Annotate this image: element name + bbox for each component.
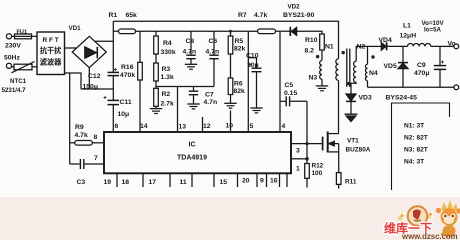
watermark seal logo <box>408 206 428 226</box>
svg-text:C9: C9 <box>417 62 426 69</box>
svg-text:TDA4919: TDA4919 <box>177 155 207 162</box>
watermark pink band <box>0 197 460 240</box>
fuse FU1 <box>15 34 32 39</box>
wire pin12 stub <box>202 117 204 132</box>
svg-text:5: 5 <box>250 123 254 130</box>
IC U1 TDA4919 box <box>104 132 291 173</box>
svg-text:R3: R3 <box>162 66 171 73</box>
svg-text:C10: C10 <box>246 53 259 60</box>
wire pin10 stub <box>230 111 232 132</box>
svg-text:C11: C11 <box>120 99 132 106</box>
ground under R6 <box>224 103 236 108</box>
watermark flower right <box>427 211 435 219</box>
svg-text:C8: C8 <box>186 38 195 45</box>
svg-text:NTC1: NTC1 <box>10 78 27 85</box>
thermistor NTC1 <box>12 62 35 73</box>
wire <box>297 31 322 34</box>
junction dots <box>229 30 375 161</box>
svg-text:14: 14 <box>140 123 148 130</box>
svg-text:R4: R4 <box>163 40 172 47</box>
wire <box>65 73 82 89</box>
svg-text:VD2: VD2 <box>288 4 301 11</box>
svg-text:R6: R6 <box>234 81 243 88</box>
svg-text:BUZ80A: BUZ80A <box>346 147 371 154</box>
svg-text:4.7n: 4.7n <box>183 49 197 56</box>
wire pin13 <box>177 87 179 132</box>
wire pin1 <box>291 158 307 160</box>
resistor R12 <box>305 159 310 188</box>
svg-text:10: 10 <box>226 123 234 130</box>
polarity dot N1 <box>342 51 345 54</box>
svg-text:20: 20 <box>242 178 250 185</box>
svg-text:2.7k: 2.7k <box>161 101 174 108</box>
svg-text:VT1: VT1 <box>347 138 359 145</box>
svg-text:www.dzsc.com: www.dzsc.com <box>401 232 458 240</box>
svg-text:C5: C5 <box>285 82 294 89</box>
wire DC bus vertical <box>112 21 114 132</box>
svg-text:R7: R7 <box>238 12 247 19</box>
wire source down <box>338 152 340 173</box>
capacitor C7 <box>189 87 198 104</box>
table box winding data <box>392 103 450 190</box>
resistor R9 <box>70 73 104 164</box>
svg-text:R9: R9 <box>75 124 84 131</box>
svg-text:R1: R1 <box>109 12 118 19</box>
winding N2 <box>347 46 368 83</box>
svg-text:16: 16 <box>270 178 278 185</box>
capacitor C3 <box>70 159 104 169</box>
capacitor C12 <box>108 68 120 76</box>
svg-text:82k: 82k <box>234 46 246 53</box>
wire <box>65 47 77 49</box>
resistor R7 <box>258 29 276 34</box>
svg-text:N1: 3T: N1: 3T <box>404 123 424 130</box>
polarity dot N3 <box>316 55 319 58</box>
svg-text:150μ: 150μ <box>83 84 99 91</box>
svg-text:82k: 82k <box>234 88 246 95</box>
svg-text:50Hz: 50Hz <box>4 55 20 62</box>
terminal AC input bottom <box>6 63 11 68</box>
wire C5 to sense node <box>306 101 308 159</box>
wire N1 to drain <box>338 80 340 133</box>
pin ticks bottom <box>117 174 287 188</box>
wire secondary bottom <box>368 86 454 88</box>
diode VD2 <box>290 27 296 36</box>
svg-text:N1: N1 <box>325 44 334 51</box>
resistor R11 <box>336 173 341 189</box>
svg-text:R5: R5 <box>235 38 244 45</box>
svg-text:7: 7 <box>94 155 98 162</box>
svg-text:1: 1 <box>296 166 300 173</box>
svg-text:RFT: RFT <box>43 37 61 44</box>
wire divider node <box>156 86 214 88</box>
capacitor C10 <box>248 58 261 108</box>
wire <box>276 30 291 32</box>
svg-text:L1: L1 <box>403 23 411 30</box>
winding N1 <box>336 59 339 81</box>
svg-text:VD4: VD4 <box>379 37 392 44</box>
svg-text:470μ: 470μ <box>414 70 430 77</box>
ground under C7 <box>187 104 199 109</box>
svg-text:N3: 82T: N3: 82T <box>404 147 428 154</box>
svg-text:5231/4.7: 5231/4.7 <box>2 87 27 94</box>
svg-text:R10: R10 <box>305 37 318 44</box>
svg-text:R16: R16 <box>121 64 134 71</box>
terminal Vo- <box>454 85 459 90</box>
ground under C8 <box>185 64 197 69</box>
transistor VT1 BUZ80A mosfet <box>323 132 339 153</box>
svg-text:0.15: 0.15 <box>284 90 297 97</box>
svg-text:8: 8 <box>94 134 98 141</box>
watermark flower left <box>398 212 407 221</box>
terminal Vo+ <box>454 44 459 49</box>
inductor L1 <box>408 44 431 47</box>
polarity dot N4 <box>371 55 374 58</box>
svg-text:R2: R2 <box>162 91 171 98</box>
svg-text:VD3: VD3 <box>359 95 372 102</box>
svg-text:VD5: VD5 <box>384 63 397 70</box>
diode VD4 <box>381 42 386 50</box>
resistor R10 <box>320 34 325 50</box>
resistor R3 <box>154 54 159 81</box>
wire <box>321 50 323 61</box>
svg-text:4.7n: 4.7n <box>206 49 220 56</box>
svg-text:15: 15 <box>220 179 228 186</box>
wire rail B mid <box>136 30 258 32</box>
watermark mascot monkey <box>436 200 460 237</box>
polarity dot N2 <box>347 82 350 85</box>
wire top rail A <box>113 21 338 59</box>
ground under R2 <box>150 109 162 114</box>
diode VD3 <box>346 83 356 114</box>
capacitor C9 <box>434 46 446 87</box>
svg-text:VD1: VD1 <box>69 25 82 32</box>
wire <box>431 45 454 47</box>
wire rail B left <box>113 30 118 32</box>
svg-text:11: 11 <box>180 179 187 186</box>
svg-text:18: 18 <box>122 179 130 186</box>
svg-text:FU1: FU1 <box>17 30 28 36</box>
wire <box>12 66 14 68</box>
svg-text:N2: N2 <box>357 44 366 51</box>
svg-text:100: 100 <box>312 170 323 177</box>
svg-text:滤波器: 滤波器 <box>40 57 62 66</box>
svg-text:C3: C3 <box>77 179 86 186</box>
chassis ground under VD3 <box>345 114 358 121</box>
svg-text:抗干扰: 抗干扰 <box>40 46 62 55</box>
wire <box>12 35 15 37</box>
svg-text:230V: 230V <box>5 43 21 50</box>
wire pin4 line <box>279 31 281 132</box>
svg-text:R12: R12 <box>312 163 324 170</box>
wire <box>387 45 407 47</box>
winding N4 <box>365 46 367 87</box>
svg-text:N3: N3 <box>309 75 318 82</box>
wire <box>32 35 38 37</box>
resistor R4 <box>154 31 159 54</box>
svg-text:13: 13 <box>179 124 187 131</box>
resistor R6 <box>228 54 233 103</box>
capacitor C8 <box>186 31 195 64</box>
svg-text:N4: 3T: N4: 3T <box>404 159 424 166</box>
diode VD5 freewheel <box>398 46 408 87</box>
bridge rectifier VD1 <box>72 36 106 67</box>
svg-text:9: 9 <box>260 178 264 185</box>
resistor R2 <box>154 81 159 108</box>
svg-text:330k: 330k <box>161 49 176 56</box>
svg-text:BYS24-45: BYS24-45 <box>386 95 418 102</box>
resistor R1 <box>119 29 136 34</box>
wire pin5 line <box>247 31 249 132</box>
svg-text:12μH: 12μH <box>400 33 417 40</box>
wire DC+ from bridge <box>95 40 113 42</box>
svg-text:C7: C7 <box>205 92 214 99</box>
svg-text:4.7k: 4.7k <box>254 12 267 19</box>
svg-text:3: 3 <box>296 148 300 155</box>
transformer core <box>347 49 350 88</box>
svg-text:10μ: 10μ <box>118 111 130 118</box>
svg-text:17: 17 <box>149 179 157 186</box>
wire secondary top <box>368 45 382 47</box>
wire <box>32 66 37 68</box>
ground under N3 <box>316 86 328 91</box>
wire pin3 gate <box>291 143 322 145</box>
svg-text:R11: R11 <box>345 179 357 186</box>
svg-text:BYS21-90: BYS21-90 <box>283 12 315 19</box>
svg-text:470k: 470k <box>120 72 135 79</box>
svg-text:N4: N4 <box>369 70 378 77</box>
svg-text:Vo: Vo <box>448 41 456 48</box>
wire primary minus rail <box>81 88 113 90</box>
svg-text:6: 6 <box>115 123 119 130</box>
svg-text:4.7k: 4.7k <box>75 132 88 139</box>
svg-text:8.2: 8.2 <box>305 48 315 55</box>
winding N3 <box>320 61 322 86</box>
resistor R16 <box>138 31 143 132</box>
svg-text:10μ: 10μ <box>247 62 259 69</box>
svg-text:IC: IC <box>189 142 196 149</box>
svg-text:4.7n: 4.7n <box>204 99 218 106</box>
RFT line filter box <box>37 32 65 75</box>
svg-text:C6: C6 <box>209 38 218 45</box>
svg-text:12: 12 <box>203 123 211 130</box>
svg-text:Io=5A: Io=5A <box>424 27 442 34</box>
capacitor C5 <box>280 96 307 106</box>
svg-text:1.3k: 1.3k <box>161 74 174 81</box>
svg-text:4: 4 <box>282 123 286 130</box>
svg-text:65k: 65k <box>126 12 138 19</box>
wire bridge bottom to minus rail <box>88 68 90 89</box>
terminal AC input top <box>6 34 11 39</box>
capacitor C11 <box>104 96 120 105</box>
resistor R5 <box>228 31 233 54</box>
capacitor C6 <box>209 31 218 86</box>
svg-text:N2: 82T: N2: 82T <box>404 135 428 142</box>
svg-text:C12: C12 <box>88 73 101 80</box>
ground under C10 <box>250 108 262 113</box>
svg-text:19: 19 <box>104 179 112 186</box>
